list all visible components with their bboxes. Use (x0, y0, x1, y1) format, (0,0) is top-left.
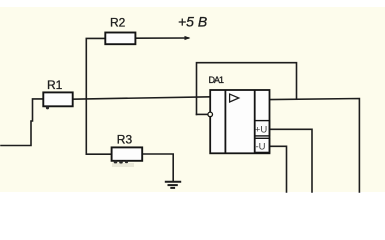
svg-text:-U: -U (256, 142, 266, 153)
svg-text:+U: +U (255, 125, 268, 136)
svg-text:R1: R1 (47, 78, 63, 92)
svg-text:R2: R2 (110, 16, 126, 30)
svg-text:R3: R3 (117, 132, 133, 146)
svg-text:DA1: DA1 (209, 75, 225, 85)
svg-text:+5 В: +5 В (178, 14, 207, 30)
